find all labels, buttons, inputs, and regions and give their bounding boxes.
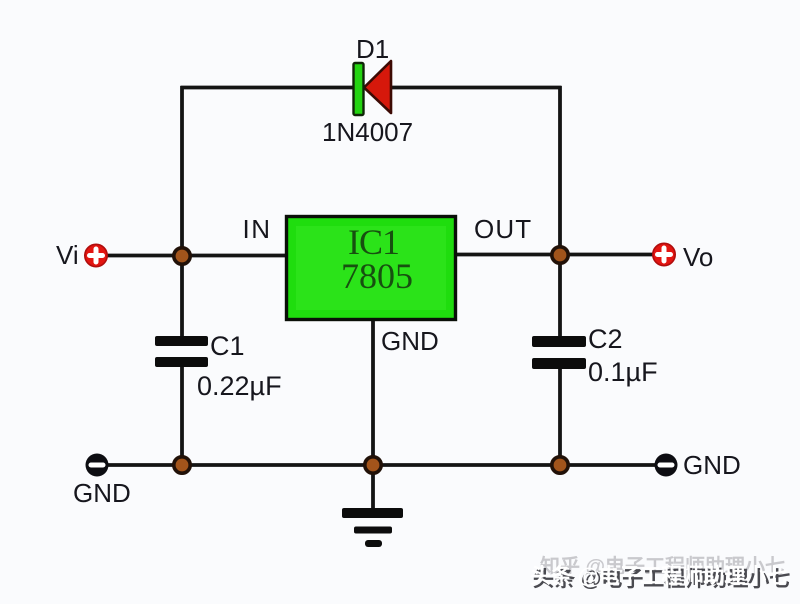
svg-text:Vo: Vo: [683, 242, 713, 272]
svg-text:IN: IN: [243, 214, 272, 244]
capacitor C1 top plate: [155, 336, 208, 346]
svg-text:C1: C1: [210, 331, 245, 361]
svg-text:D1: D1: [356, 34, 389, 64]
svg-text:0.22µF: 0.22µF: [197, 371, 282, 401]
capacitor C2 top plate: [532, 336, 586, 347]
svg-text:0.1µF: 0.1µF: [588, 357, 658, 387]
IC1 inner highlight: [296, 226, 446, 310]
wire top-left segment (from left vertical to diode anode bar): [181, 86, 355, 90]
GND terminal left (black circle with minus): [86, 454, 109, 477]
junction node bottom-left: [174, 457, 190, 473]
capacitor C2 bottom plate: [532, 358, 586, 369]
wire left vertical upper (top wire down to Vi node): [180, 86, 184, 256]
diode D1 body (red triangle, 1N4007): [364, 61, 391, 113]
junction node at Vi/IN: [174, 248, 190, 264]
wire bottom ground rail: [107, 463, 656, 467]
wire OUT pin to Vo terminal: [457, 253, 654, 257]
wire top-right segment (from diode cathode to right vertical): [392, 86, 562, 90]
svg-text:7805: 7805: [341, 256, 413, 296]
wire left vertical from C1 bottom plate to bottom rail: [180, 366, 184, 465]
ground symbol: [342, 508, 403, 547]
wire right vertical upper (top wire down to Vo node): [558, 86, 562, 255]
diode D1 cathode bar (green): [354, 63, 364, 115]
node Vo terminal (red circle with plus): [653, 243, 675, 265]
svg-text:1N4007: 1N4007: [322, 117, 413, 147]
junction node bottom-center: [365, 457, 381, 473]
svg-text:C2: C2: [588, 324, 623, 354]
svg-text:GND: GND: [73, 478, 131, 508]
node Vi terminal (red circle with plus): [85, 244, 107, 266]
wire right vertical from C2 bottom plate to bottom rail: [558, 367, 562, 465]
svg-text:OUT: OUT: [474, 214, 532, 244]
capacitor C1 bottom plate: [155, 357, 208, 367]
op-amp region: IC1 7805 regulator box: [287, 217, 456, 320]
svg-text:GND: GND: [683, 450, 741, 480]
svg-text:Vi: Vi: [56, 240, 79, 270]
GND terminal right (black circle with minus): [655, 454, 678, 477]
svg-text:GND: GND: [381, 326, 439, 356]
svg-text:头条 @电子工程师助理小七: 头条 @电子工程师助理小七: [530, 564, 787, 588]
junction node bottom-right: [552, 457, 568, 473]
junction node at OUT/Vo: [552, 247, 568, 263]
wire Vi terminal to IN pin: [106, 254, 285, 258]
wire right vertical to C2 top plate: [558, 255, 562, 337]
wire IC GND pin vertical: [371, 320, 375, 508]
wire left vertical to C1 top plate: [180, 256, 184, 337]
